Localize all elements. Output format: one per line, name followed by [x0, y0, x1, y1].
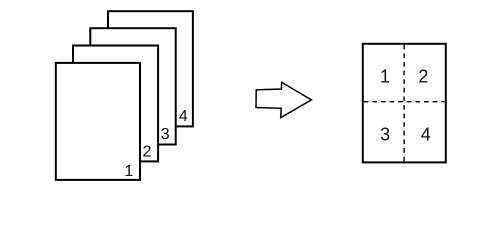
svg-text:4: 4	[179, 108, 188, 125]
horizontal fold dashed line	[364, 101, 445, 103]
combined sheet (right)	[363, 44, 446, 163]
svg-text:2: 2	[418, 66, 428, 86]
svg-text:3: 3	[161, 126, 170, 143]
svg-text:3: 3	[380, 124, 390, 144]
sheet 4 (backmost page of stack)	[108, 11, 193, 126]
svg-text:1: 1	[380, 66, 390, 86]
sheet 3	[90, 28, 175, 144]
svg-text:1: 1	[124, 163, 133, 180]
svg-text:4: 4	[421, 124, 431, 144]
sheet 2	[73, 46, 158, 162]
sheet 1 (front page of stack)	[56, 63, 140, 180]
vertical fold dashed line	[403, 45, 405, 162]
arrow	[256, 82, 311, 117]
svg-text:2: 2	[143, 144, 152, 161]
